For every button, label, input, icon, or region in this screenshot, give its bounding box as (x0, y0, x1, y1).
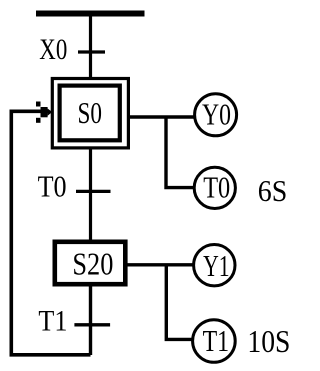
wire rail to step S0 (89, 14, 92, 80)
svg-text:6S: 6S (258, 173, 288, 208)
wire S20 to coil Y1 (126, 263, 193, 266)
timer coil T1 (193, 320, 236, 363)
transition T0 tick (76, 190, 111, 193)
step S0 initial step outer box (52, 79, 128, 148)
arrowhead into S0 upper barb (36, 102, 41, 107)
arrowhead into S0 lower barb (36, 118, 41, 123)
svg-text:X0: X0 (39, 34, 67, 66)
wire S20 down (89, 286, 92, 355)
coil Y1 (194, 245, 235, 286)
svg-text:T0: T0 (38, 169, 67, 204)
svg-text:Y1: Y1 (203, 248, 230, 283)
transition X0 tick (78, 50, 105, 53)
wire branch down to timer T0 coil (166, 117, 194, 188)
svg-text:T1: T1 (38, 305, 67, 338)
svg-text:10S: 10S (247, 323, 290, 359)
transition T1 tick (74, 323, 110, 326)
step S0 initial step inner box (60, 86, 120, 141)
timer coil T0 (194, 167, 235, 208)
power rail (top bus bar) (36, 11, 145, 17)
step S20 box (55, 242, 126, 284)
feedback wire bottom-left loop (11, 111, 90, 354)
svg-text:T0: T0 (203, 170, 230, 205)
wire branch down to timer T1 coil (166, 265, 192, 340)
svg-text:S20: S20 (72, 246, 113, 282)
svg-text:T1: T1 (203, 323, 230, 358)
svg-text:Y0: Y0 (202, 96, 231, 131)
wire S0 to coil Y0 (128, 115, 194, 118)
coil Y0 (195, 94, 237, 136)
arrowhead tip (48, 109, 53, 116)
arrowhead center block (41, 107, 48, 117)
svg-text:S0: S0 (78, 95, 103, 130)
wire S0 to S20 (89, 149, 92, 241)
